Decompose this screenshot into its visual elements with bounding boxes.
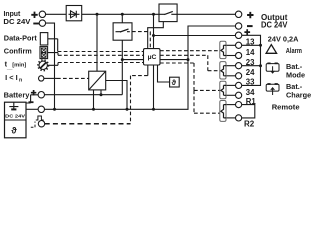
terminal battery data xyxy=(38,121,44,127)
label minus output xyxy=(247,25,253,27)
svg-text:24: 24 xyxy=(246,68,255,77)
diode D1 symbol xyxy=(69,11,80,18)
wire +input rail xyxy=(46,13,236,15)
wire data-port stub xyxy=(48,39,58,52)
wire t-min stub xyxy=(49,63,58,66)
wire remote input dashed xyxy=(194,90,220,113)
svg-text:33: 33 xyxy=(246,78,255,87)
battery module box xyxy=(5,102,27,138)
wire battery plus line xyxy=(45,94,123,96)
svg-text:Remote: Remote xyxy=(272,103,300,112)
converter DC/DC box xyxy=(89,71,106,90)
wire - input to minus rail xyxy=(46,23,55,109)
battery symbol plates xyxy=(9,102,18,109)
wire battery data bus bottom dashed xyxy=(45,123,131,125)
svg-text:[min]: [min] xyxy=(12,62,26,68)
wire uC bat-mode control dashed xyxy=(160,63,220,90)
relay K1 actuator xyxy=(220,41,226,58)
wire battery sense to uC xyxy=(122,59,143,61)
battery module divider xyxy=(5,119,27,121)
node uC supply junction xyxy=(152,13,155,16)
svg-text:34: 34 xyxy=(246,88,255,97)
potentiometer t-min symbol xyxy=(39,61,47,69)
terminal - input xyxy=(39,20,45,26)
wire contact 14 xyxy=(226,55,235,57)
label plus 0,2A xyxy=(244,29,250,35)
temperature sensor box xyxy=(170,77,180,87)
svg-text:ϑ: ϑ xyxy=(172,78,177,87)
node battery sense junction xyxy=(121,58,124,61)
wire switch S2 bottom to uC xyxy=(148,22,164,49)
node 24V 0,2A tap xyxy=(152,34,155,37)
wire t-min dashed to uC xyxy=(58,62,144,64)
switch S1 box xyxy=(113,23,132,40)
terminal 34 xyxy=(236,92,242,98)
wire contact 13 xyxy=(226,44,261,46)
wire uC supply vertical xyxy=(153,14,155,48)
wire switch S1 control dashed xyxy=(132,32,150,49)
wire 24V signal feed loop xyxy=(242,35,261,85)
svg-text:14: 14 xyxy=(246,48,255,57)
wire converter output right down to minus rail xyxy=(106,81,127,110)
wire converter bottom-right to battery plus xyxy=(100,90,102,95)
node uC minus junction xyxy=(187,58,190,61)
label battery minus xyxy=(29,101,34,103)
wire confirm dashed to uC xyxy=(58,54,144,56)
wire uC to temperature sensor xyxy=(158,65,170,82)
label battery plus xyxy=(31,90,36,95)
svg-text:24V 0,2A: 24V 0,2A xyxy=(268,34,299,43)
relay K4 remote actuator xyxy=(220,101,226,122)
wire contact 33 xyxy=(226,84,235,86)
wire current-limit dashed to converter xyxy=(57,77,89,79)
label plus output xyxy=(247,12,253,18)
svg-text:Charge: Charge xyxy=(286,90,311,99)
terminal R1 xyxy=(236,102,242,108)
switch S2 symbol xyxy=(159,13,177,15)
terminal 24 xyxy=(236,73,242,79)
wire contact 24 xyxy=(226,75,235,77)
wire uC bottom pin battery-sense xyxy=(147,65,149,76)
wire current-limit stub xyxy=(44,77,57,79)
svg-text:Battery: Battery xyxy=(4,90,31,99)
terminal + input xyxy=(39,11,45,17)
terminal 13 xyxy=(236,42,242,48)
node feed 23 xyxy=(259,64,262,67)
wire battery minus hookup xyxy=(26,108,38,110)
svg-text:R2: R2 xyxy=(244,119,255,128)
label plus input xyxy=(31,12,37,18)
alarm triangle icon xyxy=(266,45,277,54)
terminal output minus xyxy=(235,23,241,29)
node converter minus junction xyxy=(92,108,95,111)
terminal R2 xyxy=(236,115,242,121)
wire contact R1 xyxy=(226,104,235,106)
svg-text:n: n xyxy=(19,78,22,84)
wire battery data stub dashed xyxy=(31,122,35,128)
converter DC/DC diagonal xyxy=(89,72,105,90)
data-port symbol xyxy=(40,33,48,45)
microcontroller uC box xyxy=(144,49,161,65)
wire uC bat-charge control dashed xyxy=(160,55,220,70)
wire switch S1 bottom to battery plus xyxy=(121,40,123,94)
node converter output junction xyxy=(126,108,129,111)
wire diode junction down to converter xyxy=(96,14,98,71)
terminal 33 xyxy=(236,82,242,88)
node feed 13 xyxy=(259,44,262,47)
svg-text:Alarm: Alarm xyxy=(286,46,302,55)
wire contact 23 xyxy=(226,65,261,67)
svg-text:Data-Port: Data-Port xyxy=(4,33,37,42)
wire contact R2 xyxy=(226,117,235,119)
wire converter bottom-left to minus rail xyxy=(93,90,95,109)
switch S1 symbol xyxy=(116,31,130,33)
wire contact 34 xyxy=(226,94,235,96)
svg-text:DC 24V: DC 24V xyxy=(5,113,26,119)
node minus-input junction xyxy=(53,108,56,111)
wire uC bottom to minus rail xyxy=(153,65,155,109)
svg-text:Confirm: Confirm xyxy=(4,47,32,56)
svg-text:ϑ: ϑ xyxy=(11,126,17,136)
relay K3 actuator xyxy=(220,81,226,98)
svg-text:µC: µC xyxy=(148,54,157,61)
terminal 24V 0,2A xyxy=(235,32,241,38)
diode D1 box xyxy=(66,6,82,21)
wire data-port dashed to uC xyxy=(58,51,144,53)
battery mode icon xyxy=(266,63,279,73)
confirm button symbol xyxy=(40,47,48,59)
pulse symbol battery data xyxy=(36,116,44,120)
terminal current-limit xyxy=(39,76,44,81)
svg-text:13: 13 xyxy=(246,38,255,47)
terminal output plus xyxy=(235,11,241,17)
switch S2 box xyxy=(159,4,177,22)
wire minus rail bottom xyxy=(45,26,236,109)
terminal 23 xyxy=(236,63,242,69)
wire confirm stub xyxy=(48,53,58,56)
svg-text:Mode: Mode xyxy=(286,70,305,79)
node diode output junction xyxy=(96,13,99,16)
wire 24V 0,2A output xyxy=(154,35,236,37)
battery charge icon xyxy=(266,84,279,95)
svg-text:DC 24V: DC 24V xyxy=(3,17,30,26)
svg-text:I < I: I < I xyxy=(5,73,18,82)
svg-text:23: 23 xyxy=(246,58,255,67)
relay K2 actuator xyxy=(220,62,226,79)
node converter battery junction xyxy=(100,93,103,96)
terminal 14 xyxy=(236,52,242,58)
wire top to switch S1 xyxy=(121,14,123,22)
wire uC right solid pin to minus vertical xyxy=(160,59,188,61)
svg-text:R1: R1 xyxy=(246,97,257,106)
wire battery data dashed xyxy=(131,76,148,124)
node switch1 top junction xyxy=(121,13,124,16)
label minus input xyxy=(33,23,39,25)
terminal battery minus xyxy=(38,106,44,112)
terminal battery plus xyxy=(38,92,44,98)
wire remote jumper R1-R2 xyxy=(242,105,255,118)
wire uC alarm control dashed xyxy=(160,50,220,52)
wire battery plus hookup xyxy=(26,95,38,103)
node uC ground junction xyxy=(152,108,155,111)
svg-text:DC 24V: DC 24V xyxy=(261,21,288,30)
